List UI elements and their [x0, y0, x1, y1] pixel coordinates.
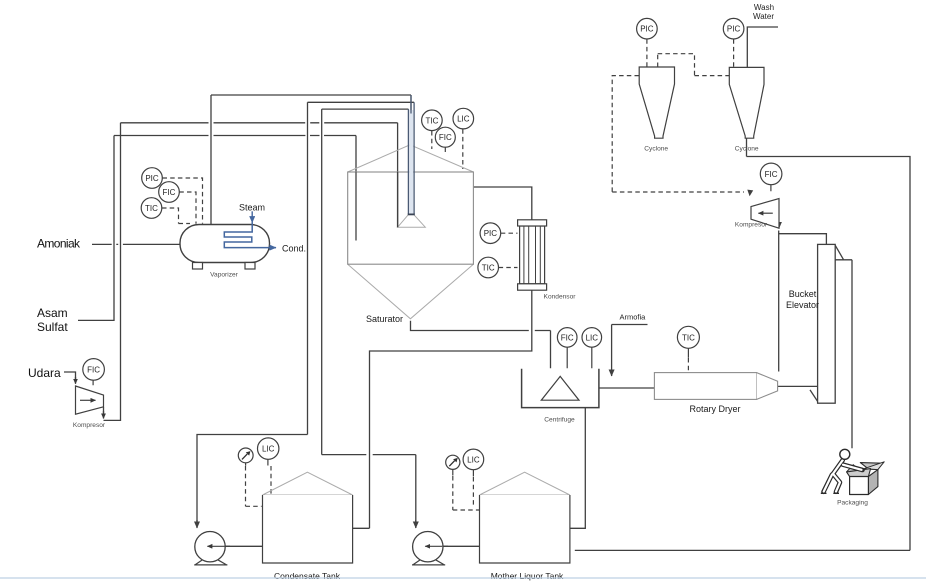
- svg-text:Udara: Udara: [28, 366, 61, 380]
- svg-text:Amoniak: Amoniak: [37, 237, 81, 251]
- svg-text:Armofia: Armofia: [620, 313, 647, 322]
- svg-text:TIC: TIC: [682, 333, 695, 342]
- svg-text:Wash: Wash: [754, 3, 774, 12]
- svg-text:Kondensor: Kondensor: [544, 294, 577, 301]
- svg-text:Cyclone: Cyclone: [644, 146, 668, 153]
- svg-text:FIC: FIC: [765, 170, 778, 179]
- svg-text:LIC: LIC: [262, 445, 275, 454]
- svg-text:Elevator: Elevator: [786, 300, 819, 310]
- svg-text:LIC: LIC: [467, 455, 480, 464]
- svg-text:Rotary Dryer: Rotary Dryer: [689, 404, 740, 414]
- svg-text:LIC: LIC: [457, 115, 470, 124]
- svg-text:TIC: TIC: [425, 116, 438, 125]
- svg-text:Packaging: Packaging: [837, 500, 868, 507]
- svg-text:Cyclone: Cyclone: [735, 146, 759, 153]
- svg-text:PIC: PIC: [484, 229, 498, 238]
- svg-text:Steam: Steam: [239, 203, 265, 213]
- svg-text:Kompresor: Kompresor: [735, 222, 768, 229]
- svg-text:LIC: LIC: [586, 333, 599, 342]
- svg-text:PIC: PIC: [640, 25, 654, 34]
- svg-text:Cond.: Cond.: [282, 244, 306, 254]
- svg-text:FIC: FIC: [163, 188, 176, 197]
- svg-text:Condensate Tank: Condensate Tank: [274, 571, 341, 581]
- svg-text:FIC: FIC: [439, 133, 452, 142]
- svg-text:Centrifuge: Centrifuge: [544, 417, 575, 424]
- svg-text:PIC: PIC: [727, 25, 741, 34]
- svg-text:Saturator: Saturator: [366, 314, 403, 324]
- svg-text:Vaporizer: Vaporizer: [210, 272, 239, 279]
- svg-text:Asam: Asam: [37, 306, 68, 320]
- svg-text:Kompresor: Kompresor: [73, 422, 106, 429]
- svg-text:TIC: TIC: [482, 264, 495, 273]
- svg-text:FIC: FIC: [561, 333, 574, 342]
- svg-text:FIC: FIC: [87, 365, 100, 374]
- svg-text:Bucket: Bucket: [789, 289, 817, 299]
- svg-text:TIC: TIC: [145, 204, 158, 213]
- svg-text:Sulfat: Sulfat: [37, 320, 68, 334]
- svg-text:PIC: PIC: [145, 174, 159, 183]
- svg-text:Water: Water: [753, 12, 774, 21]
- svg-text:Mother Liquor Tank: Mother Liquor Tank: [491, 571, 564, 581]
